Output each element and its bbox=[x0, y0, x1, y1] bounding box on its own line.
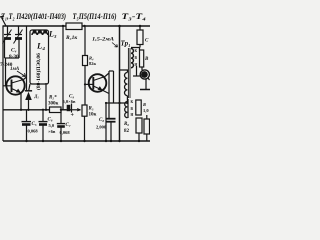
svg-text:R: R bbox=[143, 102, 146, 107]
Tr1 core bbox=[128, 48, 130, 98]
diode D1 bbox=[25, 90, 32, 92]
shield box of L4 bbox=[30, 30, 49, 84]
transistor T2 bbox=[89, 74, 107, 92]
volume pot R5 bbox=[82, 105, 87, 116]
Tr1 secondary top link bbox=[131, 48, 140, 51]
cap C8 bbox=[107, 118, 116, 120]
top supply wire bbox=[3, 25, 151, 27]
svg-text:С₅: С₅ bbox=[32, 122, 37, 127]
svg-text:300к: 300к bbox=[48, 102, 59, 107]
Tr2 winding bbox=[125, 102, 128, 118]
resistor R2 bbox=[50, 107, 62, 113]
L4 winding bumps bbox=[32, 32, 48, 35]
wire to T1 base bbox=[3, 58, 12, 86]
T2 collector drop bbox=[103, 90, 110, 93]
capacitor C7 bbox=[60, 110, 62, 124]
svg-text:5,0×6в: 5,0×6в bbox=[63, 99, 76, 104]
svg-text:С₆: С₆ bbox=[48, 118, 53, 123]
resistor R3 in top wire bbox=[66, 23, 82, 30]
svg-text:1мА: 1мА bbox=[10, 67, 20, 72]
variable capacitor C1 bbox=[4, 34, 11, 36]
svg-text:С₄: С₄ bbox=[11, 48, 17, 54]
coupling wire from box bbox=[45, 83, 47, 110]
svg-text:К: К bbox=[131, 100, 134, 104]
Tr1 secondary winding bbox=[131, 49, 133, 68]
svg-text:R₃1к: R₃1к bbox=[65, 35, 77, 41]
mid detector bus bbox=[3, 109, 72, 111]
svg-text:В: В bbox=[144, 57, 149, 62]
far right resistor bbox=[144, 119, 150, 134]
tuning cap drop wires bbox=[8, 26, 19, 34]
junction node right of R3 bbox=[83, 25, 85, 27]
svg-text:R₄: R₄ bbox=[89, 56, 94, 61]
wire to output stage bbox=[113, 71, 115, 103]
left border wire bbox=[2, 26, 4, 141]
svg-text:×6в: ×6в bbox=[48, 129, 56, 134]
primary stubs bbox=[120, 70, 127, 73]
R6 resistor bbox=[136, 118, 142, 133]
svg-text:10к: 10к bbox=[89, 113, 97, 118]
svg-text:5,0: 5,0 bbox=[49, 123, 55, 128]
T1 collector diag to tank line bbox=[24, 77, 27, 80]
svg-text:82: 82 bbox=[124, 129, 130, 134]
svg-text:Тр₁: Тр₁ bbox=[121, 40, 131, 48]
svg-text:R₂*: R₂* bbox=[49, 96, 57, 101]
svg-text:1,5-2мА: 1,5-2мА bbox=[92, 37, 114, 43]
svg-text:2,000: 2,000 bbox=[96, 125, 107, 130]
trimmer capacitor C4 bbox=[15, 34, 22, 36]
antenna lead bbox=[0, 16, 6, 26]
capacitor C6 electrolytic bbox=[42, 110, 44, 122]
svg-text:(80-160)ПЭ0,06: (80-160)ПЭ0,06 bbox=[35, 53, 42, 90]
svg-text:Н: Н bbox=[131, 113, 134, 117]
middle vertical wire bbox=[62, 26, 64, 110]
bold supply rail right bbox=[119, 26, 121, 141]
resistor second right bbox=[140, 50, 144, 67]
svg-text:8-30: 8-30 bbox=[9, 54, 19, 60]
bottom ground bus bbox=[3, 140, 150, 142]
svg-text:Д₁: Д₁ bbox=[34, 94, 40, 99]
svg-text:0,068: 0,068 bbox=[60, 130, 71, 135]
transistor T1 bbox=[6, 76, 24, 94]
svg-text:С₇: С₇ bbox=[66, 123, 71, 128]
svg-text:R₆: R₆ bbox=[124, 122, 129, 127]
svg-text:Т₁,Т₂ П420(П401-П403): Т₁,Т₂ П420(П401-П403) bbox=[1, 12, 66, 21]
svg-text:+: + bbox=[71, 113, 75, 119]
transistor T3 (dense blob) bbox=[136, 66, 138, 76]
cap bottom wires bbox=[5, 39, 20, 58]
oscillator tank vertical wire bbox=[26, 26, 28, 91]
T1 emitter down wire bbox=[20, 93, 22, 110]
resistor upper right bbox=[139, 26, 141, 30]
electrolytic C9 bbox=[61, 109, 66, 111]
T3 emitter wire bbox=[140, 89, 150, 91]
svg-text:L₃: L₃ bbox=[48, 30, 57, 39]
svg-text:С₈: С₈ bbox=[99, 118, 104, 123]
svg-text:L₄: L₄ bbox=[36, 41, 45, 51]
T2 base wire bbox=[85, 83, 93, 85]
T2 emitter riser bbox=[105, 73, 109, 77]
wiper arrow into pot bbox=[77, 109, 80, 111]
svg-text:0,068: 0,068 bbox=[28, 129, 39, 134]
svg-text:Т₅П5(П14-П16): Т₅П5(П14-П16) bbox=[73, 12, 117, 21]
svg-text:Т₃-Т₄: Т₃-Т₄ bbox=[122, 12, 147, 21]
resistor mid right bbox=[136, 100, 141, 115]
svg-text:82к: 82к bbox=[89, 61, 97, 66]
Tr2 core bbox=[127, 99, 129, 118]
resistor R4 vertical bbox=[84, 26, 86, 56]
Tr1 primary winding bbox=[125, 73, 128, 96]
svg-text:1,0: 1,0 bbox=[143, 108, 149, 113]
svg-text:R₅: R₅ bbox=[89, 107, 94, 112]
svg-text:К: К bbox=[135, 49, 138, 53]
capacitor C5 bbox=[26, 110, 28, 122]
